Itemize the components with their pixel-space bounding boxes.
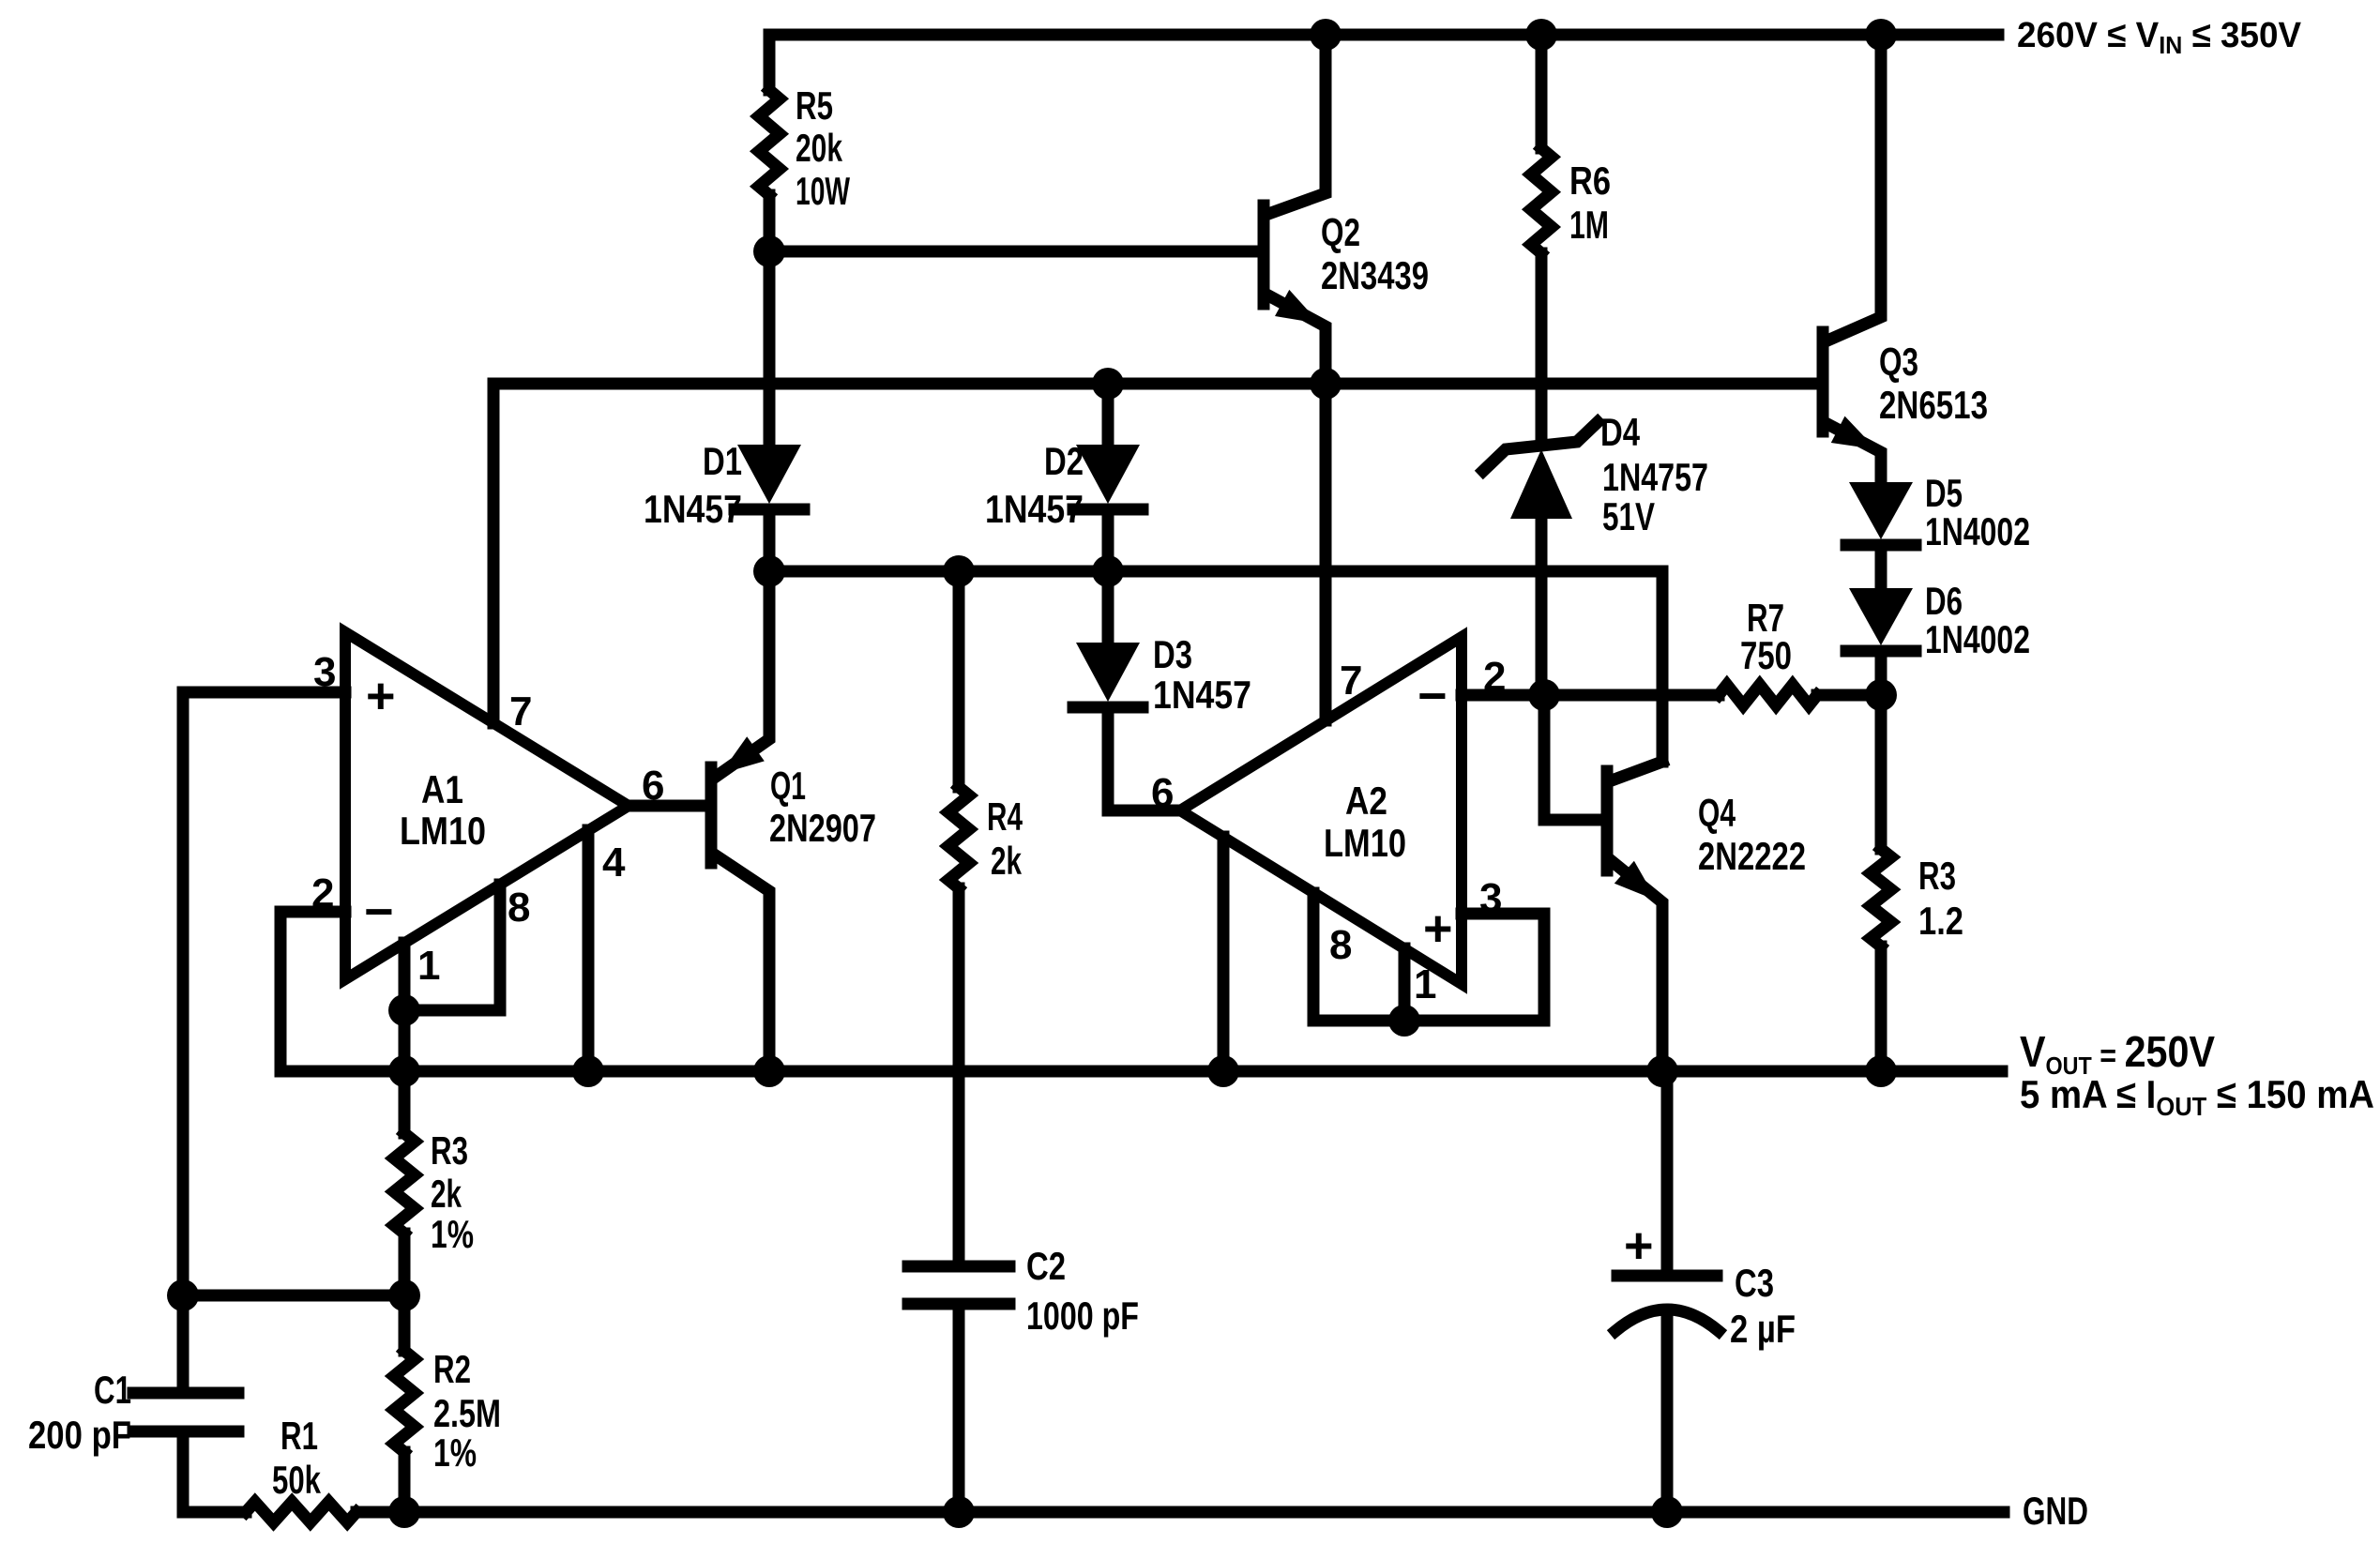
svg-text:200 pF: 200 pF xyxy=(28,1413,131,1457)
transistor Q1 2N2907 xyxy=(711,571,769,1071)
svg-text:+: + xyxy=(366,668,396,724)
svg-text:C2: C2 xyxy=(1026,1244,1066,1288)
wire A2 pin 3 lead xyxy=(1404,914,1544,1021)
svg-text:1.2: 1.2 xyxy=(1918,899,1963,943)
node junction C2 / bus xyxy=(943,1496,975,1528)
wire D5 to D6 xyxy=(1875,550,1887,588)
svg-text:Q3: Q3 xyxy=(1879,340,1918,384)
wire D1 anode lead xyxy=(764,251,776,445)
wire Q2 base line xyxy=(769,246,1259,258)
label GND xyxy=(2023,1489,2088,1533)
svg-text:750: 750 xyxy=(1740,633,1792,677)
wire V_OUT bus xyxy=(280,1066,2002,1078)
svg-text:2 µF: 2 µF xyxy=(1730,1307,1796,1351)
diode D2 1N457 xyxy=(1073,445,1143,509)
resistor R3 2k xyxy=(394,1133,415,1234)
svg-text:D4: D4 xyxy=(1600,410,1640,454)
label D4 value xyxy=(1600,410,1708,538)
node junction C3 / bus xyxy=(1651,1496,1683,1528)
svg-text:50k: 50k xyxy=(272,1458,321,1502)
svg-text:1: 1 xyxy=(417,943,440,989)
wire C3 bottom lead xyxy=(1661,1310,1674,1512)
svg-text:7: 7 xyxy=(1340,658,1361,704)
diode D6 1N4002 xyxy=(1846,588,1916,651)
transistor Q2 2N3439 xyxy=(1264,35,1326,384)
svg-text:1N4002: 1N4002 xyxy=(1925,509,2030,553)
transistor Q4 2N2222 xyxy=(1607,762,1662,1071)
label D1 value xyxy=(644,439,742,531)
node junction Q3 collector / top rail xyxy=(1865,19,1897,51)
node junction Q2 collector / top rail xyxy=(1310,19,1342,51)
label R5 value xyxy=(796,83,850,213)
svg-text:2k: 2k xyxy=(991,839,1022,883)
label R6 value xyxy=(1569,159,1611,247)
svg-text:R1: R1 xyxy=(280,1414,318,1458)
wire R3-2k bottom lead xyxy=(399,1234,411,1295)
wire R6 top lead xyxy=(1536,35,1548,148)
wire divider tap to C1 column xyxy=(183,1290,404,1302)
wire A1 pin 2 input xyxy=(280,912,345,1071)
label R7 value xyxy=(1740,596,1792,677)
label R1 value xyxy=(272,1414,321,1502)
node junction A2 pin1/pin8/pin3 xyxy=(1388,1005,1420,1037)
node junction D6 / R7 / R3 xyxy=(1865,679,1897,711)
svg-text:1000 pF: 1000 pF xyxy=(1026,1294,1139,1338)
wire C1 to R1 xyxy=(183,1431,246,1512)
svg-text:Q2: Q2 xyxy=(1321,210,1360,254)
wire R4 to C2 xyxy=(953,888,965,1261)
node junction A2 pin2 / D4 / Q4 base xyxy=(1528,679,1560,711)
label Q1 value xyxy=(769,764,876,850)
label D3 value xyxy=(1153,632,1251,717)
label V_IN range xyxy=(2017,16,2302,59)
svg-text:1%: 1% xyxy=(433,1430,477,1475)
svg-text:C1: C1 xyxy=(94,1368,131,1412)
svg-text:R4: R4 xyxy=(987,795,1023,839)
wire R5 top lead xyxy=(764,35,776,90)
node junction D2 cathode / D3 anode / bus xyxy=(1092,555,1124,587)
svg-text:2k: 2k xyxy=(431,1172,462,1216)
label Q4 value xyxy=(1698,791,1806,878)
wire GND bus xyxy=(356,1506,2004,1519)
resistor R7 750 xyxy=(1719,685,1881,705)
wire D1 cathode lead xyxy=(764,514,776,571)
svg-text:2N2907: 2N2907 xyxy=(769,806,876,850)
node junction A1 pin1/pin8 xyxy=(388,994,420,1026)
wire A2 pin 7 riser xyxy=(1320,384,1332,720)
transistor Q3 2N6513 xyxy=(1823,35,1881,482)
node junction D2 anode / bus xyxy=(1092,368,1124,400)
resistor R1 50k xyxy=(246,1502,356,1522)
svg-text:2N6513: 2N6513 xyxy=(1879,383,1988,427)
wire top V_IN rail xyxy=(769,29,1998,41)
svg-text:1N4757: 1N4757 xyxy=(1602,455,1708,499)
svg-text:8: 8 xyxy=(1329,922,1352,968)
svg-text:4: 4 xyxy=(602,840,626,885)
diode D3 1N457 xyxy=(1073,643,1143,707)
diode D1 1N457 xyxy=(735,445,804,509)
label R4 value xyxy=(987,795,1023,883)
capacitor C3 2uF xyxy=(1615,1218,1796,1351)
diode D5 1N4002 xyxy=(1846,482,1916,545)
wire D6 cathode lead xyxy=(1875,656,1887,695)
wire R3 top lead xyxy=(1875,695,1887,849)
svg-text:LM10: LM10 xyxy=(400,809,486,853)
node junction R1 / R2 / bus xyxy=(388,1496,420,1528)
label D6 value xyxy=(1925,579,2030,661)
svg-text:Q4: Q4 xyxy=(1698,791,1736,835)
wire boost bus (D1/R4/D2/Q4 collector) xyxy=(769,566,1662,578)
wire R2 bottom lead xyxy=(399,1452,411,1512)
node junction D1 cathode / Q1 emitter / bus xyxy=(753,555,785,587)
svg-text:LM10: LM10 xyxy=(1324,821,1406,865)
node junction R4 top / bus xyxy=(943,555,975,587)
label D5 value xyxy=(1925,471,2030,553)
svg-text:Q1: Q1 xyxy=(770,764,806,808)
label R2 value xyxy=(433,1347,501,1475)
label D2 value xyxy=(985,439,1084,531)
wire R3 bottom lead xyxy=(1875,946,1887,1071)
wire A2 pin 2 line xyxy=(1462,689,1719,702)
wire A1 pin 4 lead xyxy=(583,830,595,1071)
node junction R3-1.2 / bus xyxy=(1865,1055,1897,1087)
label V_OUT xyxy=(2020,1027,2374,1121)
svg-text:C3: C3 xyxy=(1735,1261,1774,1305)
svg-text:1N457: 1N457 xyxy=(1153,673,1251,717)
node junction R3-2k column / bus xyxy=(388,1055,420,1087)
node junction C1 / tap xyxy=(167,1279,199,1311)
node junction R3-2k / R2 / C1 tap xyxy=(388,1279,420,1311)
wire C2 to ground bus xyxy=(953,1304,965,1512)
wire A1 pin 1 lead xyxy=(399,943,411,1010)
svg-text:D3: D3 xyxy=(1153,632,1192,676)
svg-text:1N457: 1N457 xyxy=(644,487,742,531)
svg-text:D6: D6 xyxy=(1925,579,1963,623)
wire D2 cathode lead xyxy=(1102,514,1114,571)
svg-text:D5: D5 xyxy=(1925,471,1963,515)
resistor R3 1.2 xyxy=(1871,849,1891,946)
node junction Q1 collector / bus xyxy=(753,1055,785,1087)
wire D3 anode lead xyxy=(1102,571,1114,643)
wire A1 output pin 6 xyxy=(629,800,706,812)
svg-text:D2: D2 xyxy=(1044,439,1084,483)
svg-text:−: − xyxy=(364,884,394,940)
wire A2 pin 4 lead xyxy=(1218,837,1230,1071)
wire A1 pin 7 riser xyxy=(488,384,500,723)
resistor R6 xyxy=(1531,148,1552,253)
wire pin1 junction to output bus xyxy=(399,1010,411,1071)
wire R6 to D4 xyxy=(1536,253,1548,438)
wire D2 anode lead xyxy=(1102,384,1114,445)
svg-text:8: 8 xyxy=(508,885,530,931)
label R3 2k value xyxy=(431,1128,474,1256)
svg-text:+: + xyxy=(1423,901,1453,957)
svg-text:R5: R5 xyxy=(796,83,833,128)
svg-text:1M: 1M xyxy=(1569,203,1609,247)
label Q3 value xyxy=(1879,340,1988,427)
node junction R6 / top rail xyxy=(1525,19,1557,51)
svg-text:GND: GND xyxy=(2023,1489,2088,1533)
label Q2 value xyxy=(1321,210,1429,297)
diode D4 zener 1N4757 xyxy=(1483,422,1598,695)
svg-text:R2: R2 xyxy=(433,1347,471,1391)
svg-text:−: − xyxy=(1417,668,1448,724)
svg-text:2N3439: 2N3439 xyxy=(1321,253,1429,297)
svg-text:1%: 1% xyxy=(431,1212,474,1256)
svg-text:R3: R3 xyxy=(1918,854,1956,898)
svg-text:20k: 20k xyxy=(796,126,842,170)
node junction Q2 emitter / A2 pin7 / bus xyxy=(1310,368,1342,400)
op-amp A2 LM10 xyxy=(1151,637,1505,1007)
wire D3 cathode to A2 pin 6 xyxy=(1108,712,1180,810)
svg-text:7: 7 xyxy=(509,689,531,734)
svg-text:1N4002: 1N4002 xyxy=(1925,617,2030,661)
label R3 1.2 value xyxy=(1918,854,1963,943)
svg-text:10W: 10W xyxy=(796,169,850,213)
resistor R2 2.5M xyxy=(394,1351,415,1452)
node junction A2 pin4 / bus xyxy=(1207,1055,1239,1087)
wire R2 top lead xyxy=(399,1295,411,1351)
svg-text:1N457: 1N457 xyxy=(985,487,1084,531)
wire A2 pin 1 lead xyxy=(1399,948,1411,1021)
svg-text:1: 1 xyxy=(1414,961,1436,1007)
resistor R4 xyxy=(948,571,969,888)
svg-text:A2: A2 xyxy=(1345,779,1387,823)
wire A1 pin 8 lead xyxy=(404,885,500,1010)
wire C3 top lead xyxy=(1661,1071,1674,1276)
wire Q4 base lead xyxy=(1544,695,1602,820)
node junction R5 / D1 / Q2 base xyxy=(753,235,785,267)
svg-text:R3: R3 xyxy=(431,1128,468,1173)
node junction Q4 emitter / C3 / bus xyxy=(1646,1055,1678,1087)
node junction A1 pin4 / bus xyxy=(572,1055,604,1087)
capacitor C1 200 pF xyxy=(28,1368,238,1457)
capacitor C2 1000 pF xyxy=(908,1244,1139,1338)
svg-text:2N2222: 2N2222 xyxy=(1698,834,1806,878)
svg-text:D1: D1 xyxy=(703,439,742,483)
wire A2 pin 8 lead xyxy=(1313,893,1404,1021)
op-amp A1 LM10 xyxy=(311,632,663,989)
wire R3-2k top lead xyxy=(399,1071,411,1133)
svg-text:+: + xyxy=(1624,1218,1654,1274)
svg-text:51V: 51V xyxy=(1602,494,1655,538)
wire op-amp bias bus (Q2 emitter / D2 / Q3 base) xyxy=(493,378,1818,390)
svg-text:6: 6 xyxy=(1151,770,1173,816)
wire A1 pin 3 input xyxy=(183,692,345,1386)
svg-text:A1: A1 xyxy=(421,767,463,811)
svg-text:R6: R6 xyxy=(1569,159,1611,203)
resistor R5 xyxy=(759,90,780,195)
wire R5 bottom lead xyxy=(764,195,776,251)
svg-text:2.5M: 2.5M xyxy=(433,1391,501,1435)
wire Q4 collector riser xyxy=(1657,571,1669,762)
